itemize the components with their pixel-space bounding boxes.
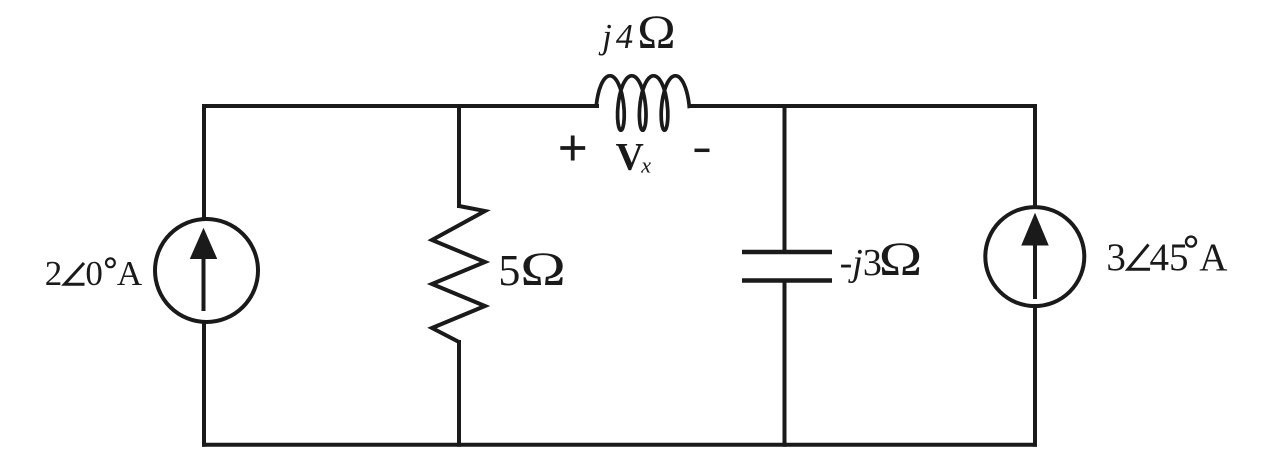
svg-text:Ω: Ω — [879, 232, 922, 286]
degree sign of 3∠45°A — [1186, 237, 1196, 247]
wire capacitor branch lower — [783, 281, 787, 445]
svg-text:5: 5 — [498, 246, 520, 295]
wire capacitor branch upper — [783, 106, 787, 252]
wire left vertical lower (source I1 to bottom wire) — [202, 322, 206, 445]
resistor R (5Ω) zigzag — [432, 206, 485, 342]
wire top-left horizontal (node 1 to node 2) — [204, 104, 597, 108]
svg-text:V: V — [616, 136, 644, 179]
svg-text:-j3: -j3 — [840, 242, 882, 284]
current source I2 arrow — [1022, 214, 1048, 299]
label + (Vx polarity plus) — [560, 136, 585, 161]
wire right vertical lower (source I2 to bottom wire) — [1033, 306, 1037, 445]
svg-text:4: 4 — [616, 18, 633, 56]
angle symbol of 3∠45°A — [1128, 245, 1150, 270]
label - (Vx polarity minus) — [695, 149, 710, 153]
svg-text:2: 2 — [45, 254, 63, 293]
inductor L (j4Ω) coil — [596, 76, 691, 130]
current source I1 arrow — [191, 229, 217, 311]
svg-text:x: x — [640, 153, 651, 178]
wire top-right horizontal (inductor to node 3) — [691, 104, 1035, 108]
degree sign of 2∠0°A — [106, 258, 115, 267]
wire left vertical upper (top wire to source I1) — [202, 106, 206, 219]
current source I2 (3∠45°A) circle — [985, 207, 1084, 306]
svg-text:45: 45 — [1150, 236, 1189, 279]
wire resistor branch lower — [457, 342, 461, 445]
svg-text:A: A — [1199, 236, 1227, 279]
svg-text:Ω: Ω — [520, 243, 566, 296]
capacitor C (-j3Ω) plates — [742, 252, 832, 281]
angle symbol of 2∠0°A — [65, 263, 85, 284]
wire resistor branch upper — [457, 106, 461, 206]
wire right vertical upper (top wire to source I2) — [1033, 106, 1037, 207]
svg-text:A: A — [117, 254, 143, 293]
svg-text:3: 3 — [1106, 236, 1126, 279]
svg-text:0: 0 — [85, 254, 103, 293]
current source I1 (2∠0°A) circle — [155, 219, 258, 322]
wire bottom horizontal — [204, 443, 1035, 447]
svg-text:Ω: Ω — [637, 6, 675, 59]
